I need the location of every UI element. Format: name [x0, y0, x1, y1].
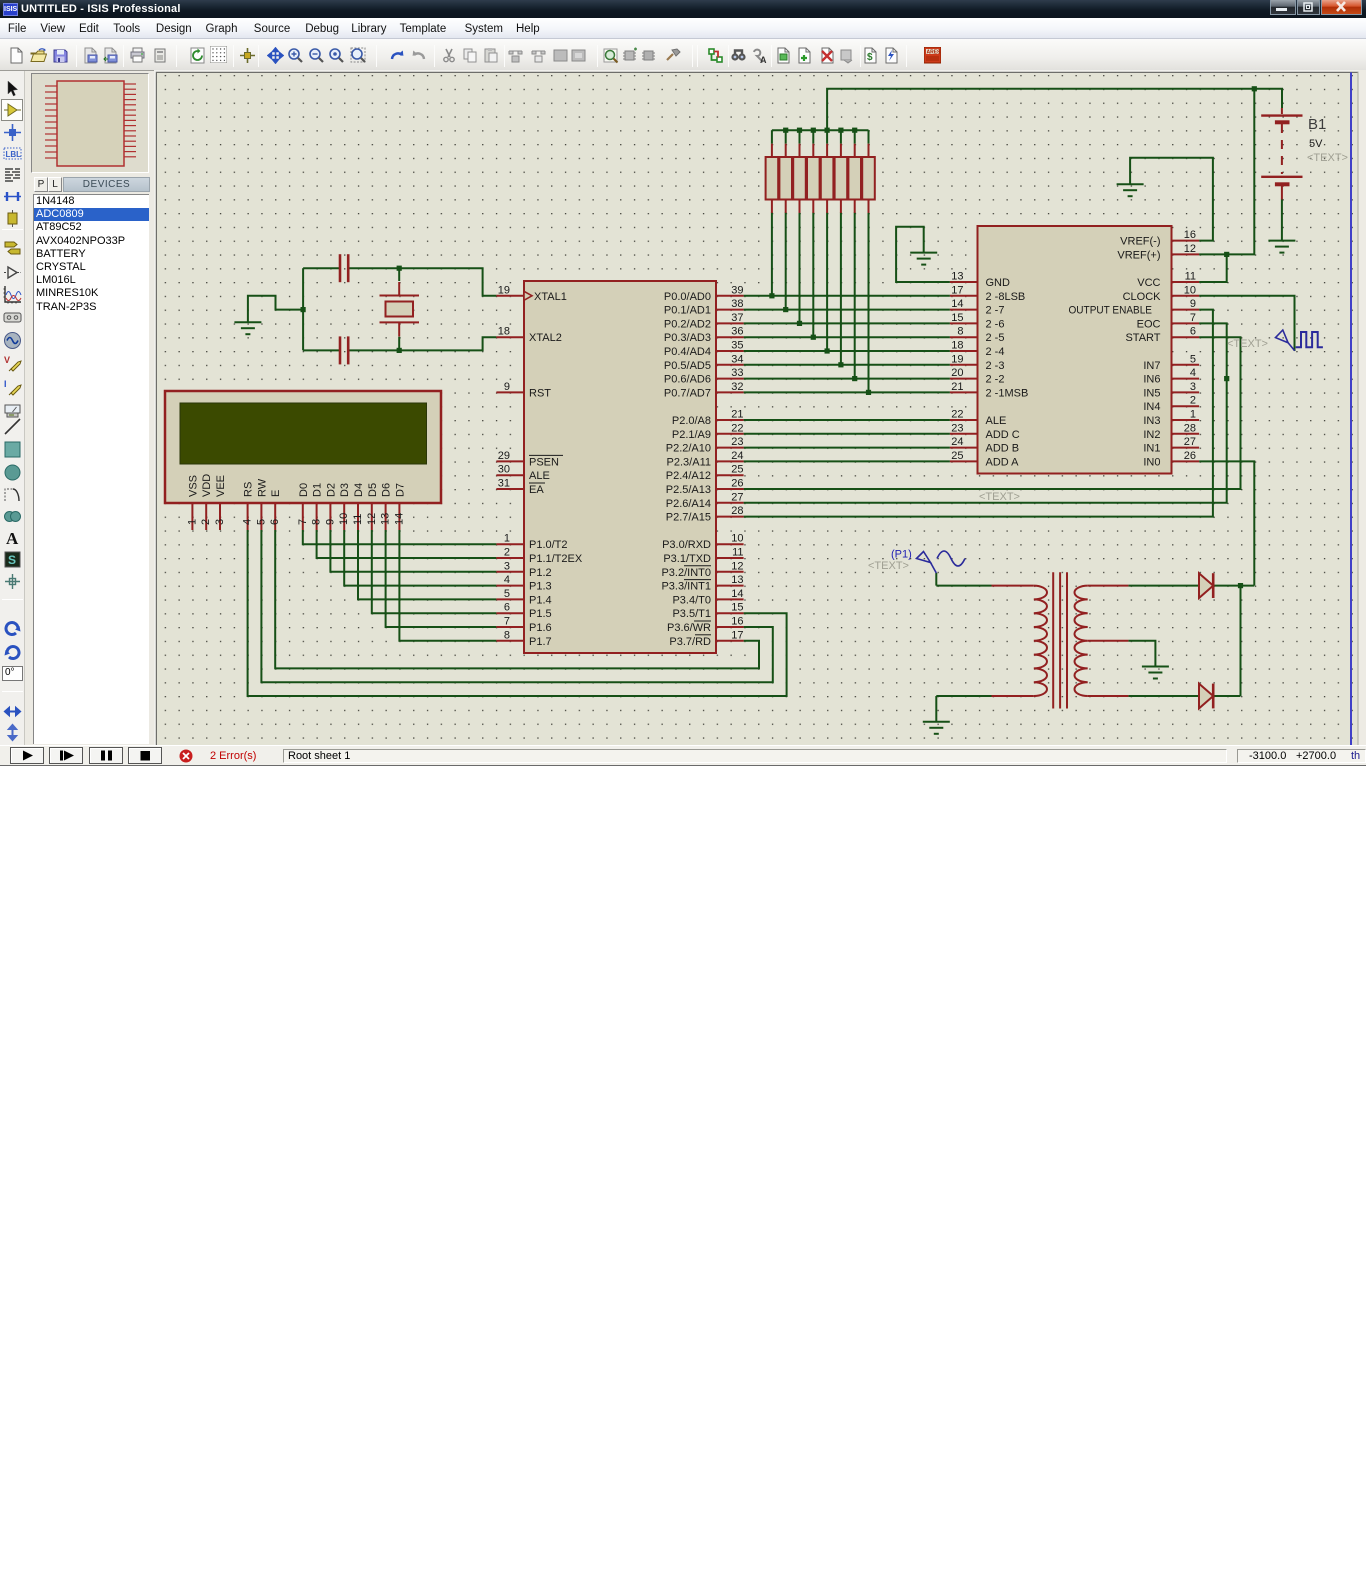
svg-text:P3.5/T1: P3.5/T1 [672, 608, 711, 620]
svg-text:17: 17 [951, 284, 963, 296]
svg-text:VEE: VEE [215, 475, 227, 497]
svg-text:D3: D3 [339, 483, 351, 497]
wire RP bottom lead 5 [840, 212, 842, 364]
svg-text:VREF(+): VREF(+) [1117, 249, 1160, 261]
svg-text:14: 14 [731, 588, 743, 600]
svg-text:P2.2/A10: P2.2/A10 [666, 443, 711, 455]
junction [783, 307, 788, 312]
wire net START [744, 337, 1241, 489]
svg-text:3: 3 [1190, 381, 1196, 393]
junction [397, 348, 402, 353]
svg-text:ARES: ARES [927, 50, 942, 56]
svg-text:3: 3 [504, 560, 510, 572]
svg-text:VDD: VDD [201, 474, 213, 497]
svg-text:18: 18 [498, 326, 510, 338]
wire RP top stub 5 [840, 130, 842, 144]
svg-text:ALE: ALE [986, 415, 1007, 427]
svg-text:P0.3/AD3: P0.3/AD3 [664, 332, 711, 344]
svg-text:24: 24 [731, 450, 743, 462]
wire RP top stub 7 [868, 130, 870, 144]
transformer TR1 [992, 572, 1129, 708]
wire RP top stub 2 [799, 130, 801, 144]
wire net D2 [330, 530, 496, 572]
ground (ADC GND) [910, 253, 937, 265]
svg-text:I: I [4, 379, 7, 389]
svg-text:D4: D4 [353, 483, 365, 497]
svg-text:A: A [760, 55, 767, 64]
svg-text:6: 6 [269, 519, 281, 525]
svg-text:D7: D7 [394, 483, 406, 497]
wire resistor pack top bus [772, 129, 869, 131]
junction [797, 321, 802, 326]
svg-text:11: 11 [732, 547, 743, 559]
sine generator symbol [937, 551, 965, 566]
svg-text:P2.6/A14: P2.6/A14 [666, 498, 711, 510]
svg-text:ADD C: ADD C [986, 429, 1020, 441]
wire crystal left vertical [302, 268, 304, 350]
svg-text:B1: B1 [1308, 116, 1326, 133]
wire VCC branch to ADC [1199, 254, 1227, 282]
svg-text:XTAL2: XTAL2 [529, 332, 562, 344]
svg-text:P2.7/A15: P2.7/A15 [666, 512, 711, 524]
svg-text:IN2: IN2 [1143, 429, 1160, 441]
svg-text:D0: D0 [298, 483, 310, 497]
svg-text:26: 26 [731, 478, 743, 490]
svg-text:P0.2/AD2: P0.2/AD2 [664, 318, 711, 330]
junction [825, 128, 830, 133]
wire net EOC [744, 323, 1227, 502]
svg-text:P3.0/RXD: P3.0/RXD [662, 539, 711, 551]
svg-text:10: 10 [1184, 284, 1196, 296]
svg-text:D5: D5 [367, 483, 379, 497]
voltage probe P1 [917, 552, 937, 574]
wire crystal stubs green [398, 268, 400, 350]
svg-text:12: 12 [731, 560, 743, 572]
svg-text:RST: RST [529, 387, 551, 399]
svg-text:IN1: IN1 [1143, 443, 1160, 455]
wire RP bottom lead 6 [854, 212, 856, 378]
svg-text:P1.4: P1.4 [529, 594, 552, 606]
svg-text:4: 4 [504, 574, 510, 586]
svg-text:ADD A: ADD A [986, 456, 1020, 468]
svg-text:IN5: IN5 [1143, 387, 1160, 399]
svg-text:23: 23 [951, 422, 963, 434]
U1 XTAL1 clock arrow [524, 291, 532, 300]
svg-text:VREF(-): VREF(-) [1120, 236, 1160, 248]
svg-text:19: 19 [951, 353, 963, 365]
wire net ADDA [744, 460, 950, 462]
ground (primary) [923, 722, 950, 734]
wire net E [275, 530, 759, 668]
svg-text:E: E [270, 490, 282, 497]
svg-text:22: 22 [731, 422, 743, 434]
svg-text:20: 20 [951, 367, 963, 379]
sheet border [1350, 72, 1352, 745]
svg-text:25: 25 [951, 450, 963, 462]
junction [811, 335, 816, 340]
svg-text:4: 4 [1190, 367, 1196, 379]
wire RP top stub 3 [812, 130, 814, 144]
svg-text:P1.7: P1.7 [529, 636, 552, 648]
svg-text:XTAL1: XTAL1 [534, 291, 567, 303]
wire RP bottom lead 0 [771, 212, 773, 295]
svg-text:9: 9 [324, 519, 336, 525]
wire D1 cathode wire [1213, 585, 1254, 587]
battery B1 [1261, 108, 1302, 200]
svg-text:25: 25 [731, 464, 743, 476]
svg-text:P0.6/AD6: P0.6/AD6 [664, 374, 711, 386]
crystal X1 [380, 282, 420, 337]
junction [1238, 583, 1243, 588]
svg-text:P2.0/A8: P2.0/A8 [672, 415, 711, 427]
wire net D4 [358, 530, 496, 599]
svg-text:32: 32 [731, 381, 743, 393]
svg-text:P3.7/RD: P3.7/RD [669, 636, 711, 648]
svg-text:VCC: VCC [1137, 277, 1160, 289]
svg-text:15: 15 [731, 602, 743, 614]
wire XTAL2 net [303, 337, 496, 350]
wire net D3 [344, 530, 496, 586]
wire XTAL1 net [303, 268, 496, 296]
microcontroller U1 AT89C52 [524, 281, 716, 653]
svg-text:P0.7/AD7: P0.7/AD7 [664, 387, 711, 399]
svg-text:9: 9 [504, 381, 510, 393]
svg-text:16: 16 [1184, 229, 1196, 241]
svg-text:38: 38 [731, 298, 743, 310]
svg-text:17: 17 [731, 629, 743, 641]
wire crystal ground wire [248, 296, 303, 322]
svg-text:33: 33 [731, 367, 743, 379]
svg-text:P3.4/T0: P3.4/T0 [672, 594, 711, 606]
svg-text:RW: RW [256, 478, 268, 497]
junction [1224, 252, 1229, 257]
clock generator DCLOCK [1276, 330, 1323, 351]
svg-text:OUTPUT ENABLE: OUTPUT ENABLE [1069, 305, 1153, 317]
wire ADC GND net [896, 227, 950, 282]
wire net OUTPUT ENABLE [744, 310, 1213, 517]
svg-text:18: 18 [951, 340, 963, 352]
svg-text:D6: D6 [381, 483, 393, 497]
svg-text:34: 34 [731, 353, 743, 365]
wire RP top stub 1 [785, 130, 787, 144]
svg-text:13: 13 [951, 271, 963, 283]
svg-text:P0.5/AD5: P0.5/AD5 [664, 360, 711, 372]
svg-text:6: 6 [1190, 326, 1196, 338]
svg-text:7: 7 [1190, 312, 1196, 324]
junction [397, 266, 402, 271]
wire secondary bottom wire [1128, 695, 1199, 697]
svg-text:2: 2 [200, 519, 212, 525]
svg-text:IN4: IN4 [1143, 401, 1160, 413]
wire net AD3 [744, 336, 950, 338]
svg-text:13: 13 [380, 513, 392, 525]
wire net ALE [744, 419, 950, 421]
svg-text:P1.3: P1.3 [529, 581, 552, 593]
wire net RW [261, 530, 772, 682]
LCD screen [180, 403, 427, 464]
svg-text:P1.5: P1.5 [529, 608, 552, 620]
svg-text:2 -3: 2 -3 [986, 360, 1005, 372]
svg-text:<TEXT>: <TEXT> [868, 560, 909, 572]
wire RP bottom lead 7 [868, 212, 870, 392]
wire net D0 [303, 530, 497, 544]
svg-text:3: 3 [214, 519, 226, 525]
svg-text:D1: D1 [312, 483, 324, 497]
U1 pins left [496, 296, 524, 641]
svg-text:2 -4: 2 -4 [986, 346, 1005, 358]
wire net IN0 [1199, 461, 1254, 585]
svg-text:2: 2 [504, 547, 510, 559]
wire net ADDC [744, 433, 950, 435]
svg-text:P3.6/WR: P3.6/WR [667, 622, 711, 634]
svg-text:16: 16 [731, 616, 743, 628]
svg-text:<TEXT>: <TEXT> [979, 491, 1020, 503]
svg-text:<TEXT>: <TEXT> [1227, 338, 1268, 350]
svg-text:14: 14 [393, 513, 405, 525]
junction [811, 128, 816, 133]
svg-text:V: V [4, 355, 10, 365]
wire primary bottom wire [936, 695, 991, 697]
wire net RS [248, 530, 787, 696]
svg-text:2 -1MSB: 2 -1MSB [986, 387, 1029, 399]
svg-text:6: 6 [504, 602, 510, 614]
svg-text:14: 14 [951, 298, 963, 310]
svg-text:28: 28 [1184, 422, 1196, 434]
wire primary ground lead [935, 696, 937, 722]
svg-text:IN0: IN0 [1143, 456, 1160, 468]
svg-text:2 -6: 2 -6 [986, 318, 1005, 330]
wire secondary top wire [1128, 585, 1199, 587]
svg-text:2 -7: 2 -7 [986, 305, 1005, 317]
junction [838, 128, 843, 133]
svg-text:36: 36 [731, 326, 743, 338]
U2 pins left [950, 282, 978, 461]
svg-text:1: 1 [504, 533, 510, 545]
wire D2 cathode wire [1213, 586, 1240, 696]
junction [825, 348, 830, 353]
junction [783, 128, 788, 133]
junction [852, 128, 857, 133]
svg-text:IN3: IN3 [1143, 415, 1160, 427]
svg-text:9: 9 [1190, 298, 1196, 310]
ground (VREF-) [1117, 184, 1144, 196]
ADC U2 ADC0809 [978, 226, 1172, 474]
wire primary top wire [936, 585, 991, 587]
svg-text:IN6: IN6 [1143, 374, 1160, 386]
svg-text:10: 10 [731, 533, 743, 545]
svg-text:23: 23 [731, 436, 743, 448]
svg-text:D2: D2 [325, 483, 337, 497]
svg-text:31: 31 [498, 478, 510, 490]
svg-text:28: 28 [731, 505, 743, 517]
svg-text:8: 8 [311, 519, 323, 525]
wire net ADDB [744, 447, 950, 449]
wire net D6 [386, 530, 497, 627]
svg-text:11: 11 [1185, 271, 1196, 283]
svg-text:GND: GND [986, 277, 1011, 289]
svg-text:37: 37 [731, 312, 743, 324]
svg-text:P3.3/INT1: P3.3/INT1 [661, 581, 711, 593]
wire VCC rail top [827, 89, 1282, 130]
svg-text:1: 1 [186, 519, 198, 525]
wire net AD7 [744, 391, 950, 393]
svg-text:29: 29 [498, 450, 510, 462]
LCD display LM016L [165, 391, 441, 503]
svg-text:8: 8 [504, 629, 510, 641]
svg-text:2 -5: 2 -5 [986, 332, 1005, 344]
svg-text:P2.1/A9: P2.1/A9 [672, 429, 711, 441]
wire probe stub [935, 573, 937, 586]
wire net D7 [399, 530, 496, 641]
svg-text:2: 2 [1190, 395, 1196, 407]
ground (battery) [1268, 241, 1295, 253]
svg-text:21: 21 [731, 409, 743, 421]
svg-text:IN7: IN7 [1143, 360, 1160, 372]
svg-text:PSEN: PSEN [529, 456, 559, 468]
svg-text:P0.0/AD0: P0.0/AD0 [664, 291, 711, 303]
wire center tap wire [1128, 641, 1155, 667]
svg-text:P0.4/AD4: P0.4/AD4 [664, 346, 711, 358]
junction [1252, 86, 1257, 91]
svg-text:P2.3/A11: P2.3/A11 [667, 456, 711, 468]
svg-text:P1.1/T2EX: P1.1/T2EX [529, 553, 583, 565]
svg-text:1: 1 [1190, 409, 1196, 421]
svg-text:30: 30 [498, 464, 510, 476]
svg-text:ALE: ALE [529, 470, 550, 482]
svg-text:P1.0/T2: P1.0/T2 [529, 539, 568, 551]
capacitor C1 [340, 254, 348, 282]
wire RP top stub 4 [826, 130, 828, 144]
svg-text:P0.1/AD1: P0.1/AD1 [664, 305, 711, 317]
svg-text:5: 5 [255, 519, 267, 525]
svg-text:P3.2/INT0: P3.2/INT0 [661, 567, 711, 579]
svg-text:P1.2: P1.2 [529, 567, 552, 579]
wire net AD0 [744, 295, 950, 297]
wire VREF- net [1130, 158, 1213, 241]
svg-text:10: 10 [338, 513, 350, 525]
svg-text:35: 35 [731, 340, 743, 352]
svg-text:(P1): (P1) [891, 549, 912, 561]
wire net D5 [372, 530, 497, 613]
svg-text:VSS: VSS [187, 475, 199, 497]
junction [852, 376, 857, 381]
wire RP bottom lead 4 [826, 212, 828, 351]
svg-text:S: S [8, 553, 16, 567]
svg-text:EA: EA [529, 484, 544, 496]
wire battery negative lead [1281, 199, 1283, 241]
svg-text:LBL: LBL [6, 150, 22, 159]
wire RP top stub 6 [854, 130, 856, 144]
svg-text:27: 27 [1184, 436, 1196, 448]
svg-text:22: 22 [951, 409, 963, 421]
svg-text:24: 24 [951, 436, 963, 448]
svg-text:21: 21 [951, 381, 963, 393]
svg-text:<TEXT>: <TEXT> [1307, 152, 1348, 164]
junction [301, 307, 306, 312]
svg-text:26: 26 [1184, 450, 1196, 462]
wire net AD6 [744, 378, 950, 380]
svg-text:7: 7 [504, 616, 510, 628]
resistor pack RP1 [766, 144, 875, 213]
junction [769, 293, 774, 298]
svg-text:EOC: EOC [1137, 318, 1161, 330]
svg-text:START: START [1125, 332, 1160, 344]
svg-text:5V: 5V [1309, 138, 1323, 150]
svg-text:12: 12 [1184, 243, 1196, 255]
svg-text:4: 4 [242, 519, 254, 525]
junction [866, 390, 871, 395]
capacitor C2 [340, 336, 348, 364]
wire net D1 [317, 530, 497, 558]
wire net AD2 [744, 322, 950, 324]
svg-text:19: 19 [498, 284, 510, 296]
svg-text:P2.4/A12: P2.4/A12 [666, 470, 711, 482]
wire RP top stub 0 [771, 130, 773, 144]
svg-text:CLOCK: CLOCK [1123, 291, 1162, 303]
junction [797, 128, 802, 133]
svg-text:8: 8 [957, 326, 963, 338]
svg-text:11: 11 [352, 514, 364, 525]
svg-text:RS: RS [243, 482, 255, 497]
U2 pins right [1172, 241, 1200, 462]
svg-text:A: A [6, 529, 19, 547]
svg-text:13: 13 [731, 574, 743, 586]
ground (crystal) [234, 322, 261, 334]
LCD pins [192, 503, 399, 530]
svg-text:39: 39 [731, 284, 743, 296]
wire net AD5 [744, 364, 950, 366]
junction [1224, 376, 1229, 381]
wire net AD1 [744, 309, 950, 311]
svg-text:15: 15 [951, 312, 963, 324]
wire VREF+ net vertical [1199, 89, 1254, 255]
svg-text:P2.5/A13: P2.5/A13 [666, 484, 711, 496]
diode D2 1N4148 [1199, 684, 1213, 709]
svg-text:ADD B: ADD B [986, 443, 1020, 455]
ground (center tap) [1142, 667, 1169, 679]
svg-text:7: 7 [297, 519, 309, 525]
wire net AD4 [744, 350, 950, 352]
svg-text:P3.1/TXD: P3.1/TXD [663, 553, 711, 565]
svg-text:27: 27 [731, 491, 743, 503]
svg-text:P1.6: P1.6 [529, 622, 552, 634]
junction [838, 362, 843, 367]
svg-text:$: $ [867, 52, 873, 63]
svg-text:5: 5 [504, 588, 510, 600]
svg-text:2 -2: 2 -2 [986, 374, 1005, 386]
wire net CLOCK [1199, 296, 1294, 351]
wire RP bottom lead 3 [812, 212, 814, 337]
svg-text:5: 5 [1190, 353, 1196, 365]
U1 pins right [716, 296, 744, 641]
svg-text:2 -8LSB: 2 -8LSB [986, 291, 1026, 303]
diode D1 1N4148 [1199, 573, 1213, 598]
wire RP bottom lead 1 [785, 212, 787, 309]
wire RP bottom lead 2 [799, 212, 801, 323]
svg-text:12: 12 [366, 513, 378, 525]
